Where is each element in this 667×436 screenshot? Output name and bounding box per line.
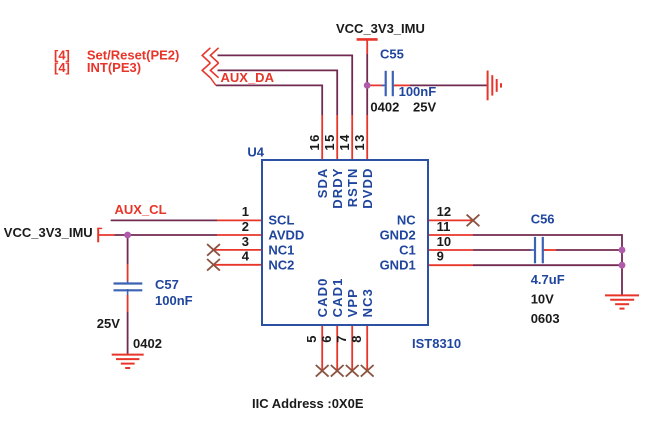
svg-text:NC1: NC1 xyxy=(268,243,294,258)
junction dot at DVDD/C55 xyxy=(364,82,371,89)
svg-text:9: 9 xyxy=(437,249,444,264)
no-ERC X pin 3 xyxy=(207,244,220,256)
C56 right red lead xyxy=(544,249,556,251)
wire VCC vertical red lead xyxy=(366,39,368,54)
no-ERC X pin 4 xyxy=(207,259,220,271)
capacitor C57 xyxy=(127,281,129,296)
IC U4 body xyxy=(262,160,428,325)
wire DVDD vertical plum xyxy=(366,54,368,115)
wire port red xyxy=(98,234,114,236)
svg-text:GND1: GND1 xyxy=(380,258,416,273)
power symbol VCC_3V3_IMU top bar xyxy=(357,38,378,41)
wire AUX_DA to SDA xyxy=(216,85,322,115)
junction dot rail C1 xyxy=(619,247,626,254)
pin 14 RSTN red lead xyxy=(351,115,353,160)
pin 6 red lead xyxy=(336,325,338,371)
junction dot rail GND1 xyxy=(619,262,626,269)
svg-text:0603: 0603 xyxy=(531,311,560,326)
svg-text:15: 15 xyxy=(322,133,337,150)
wire C55 to ground plum xyxy=(410,84,487,86)
svg-text:5: 5 xyxy=(304,335,319,342)
svg-text:1: 1 xyxy=(242,204,249,219)
svg-text:NC3: NC3 xyxy=(360,288,375,317)
ground right rail xyxy=(605,295,639,308)
C57 bottom red lead xyxy=(127,295,129,312)
svg-text:12: 12 xyxy=(437,204,451,219)
svg-text:AUX_CL: AUX_CL xyxy=(115,202,167,217)
svg-text:NC: NC xyxy=(397,212,416,227)
wire junction down to C57 plum xyxy=(127,235,129,264)
svg-text:25V: 25V xyxy=(413,99,436,114)
svg-text:CAD1: CAD1 xyxy=(330,278,345,318)
svg-text:SCL: SCL xyxy=(268,212,294,227)
capacitor C56 xyxy=(531,249,548,251)
svg-text:VCC_3V3_IMU: VCC_3V3_IMU xyxy=(336,21,425,36)
svg-text:AVDD: AVDD xyxy=(268,227,304,242)
pin 1 SCL red lead xyxy=(217,219,262,221)
C57 top red lead xyxy=(127,264,129,282)
svg-text:INT(PE3): INT(PE3) xyxy=(87,60,141,75)
svg-text:C55: C55 xyxy=(380,47,404,62)
svg-text:IIC Address :0X0E: IIC Address :0X0E xyxy=(252,396,364,411)
svg-text:RSTN: RSTN xyxy=(345,168,360,208)
pin 5 red lead xyxy=(321,325,323,371)
wire INT to DRDY xyxy=(218,70,338,115)
no-ERC X pin 8 xyxy=(361,365,374,377)
pin 16 SDA red lead xyxy=(321,115,323,160)
pin 3 NC1 red lead xyxy=(214,249,263,251)
pin 4 NC2 red lead xyxy=(214,264,263,266)
svg-text:CAD0: CAD0 xyxy=(315,278,330,318)
off-sheet connector chevron INT(PE3) xyxy=(202,63,218,85)
svg-text:DRDY: DRDY xyxy=(330,168,345,209)
svg-text:C57: C57 xyxy=(155,277,179,292)
wire port to pin2 plum xyxy=(115,234,218,236)
svg-text:VPP: VPP xyxy=(345,288,360,317)
wire GND1 to rail plum xyxy=(473,264,622,266)
ground (rotated right) at C55 xyxy=(488,71,501,101)
wire GND2 to rail xyxy=(473,235,622,295)
svg-text:25V: 25V xyxy=(97,316,120,331)
svg-text:AUX_DA: AUX_DA xyxy=(221,70,275,85)
svg-text:GND2: GND2 xyxy=(380,227,416,242)
power port VCC_3V3_IMU left bar xyxy=(97,228,99,243)
ground below C57 xyxy=(112,355,144,368)
svg-text:VCC_3V3_IMU: VCC_3V3_IMU xyxy=(4,225,93,240)
pin 10 C1 red lead xyxy=(428,249,473,251)
svg-text:10: 10 xyxy=(437,234,451,249)
svg-text:6: 6 xyxy=(319,335,334,342)
svg-text:100nF: 100nF xyxy=(399,84,437,99)
wire C55 left red xyxy=(367,84,384,86)
svg-text:4: 4 xyxy=(242,249,250,264)
svg-text:0402: 0402 xyxy=(370,99,399,114)
svg-text:3: 3 xyxy=(242,234,249,249)
pin 8 red lead xyxy=(366,325,368,371)
pin 2 AVDD red lead xyxy=(217,234,262,236)
pin 13 DVDD red lead xyxy=(366,115,368,160)
svg-text:SDA: SDA xyxy=(315,168,330,199)
svg-text:2: 2 xyxy=(242,219,249,234)
wire AUX_CL to SCL xyxy=(111,219,217,221)
svg-text:13: 13 xyxy=(352,133,367,150)
no-ERC X pin 7 xyxy=(346,365,359,377)
svg-text:C56: C56 xyxy=(531,211,555,226)
svg-text:[4]: [4] xyxy=(54,60,70,75)
svg-text:0402: 0402 xyxy=(133,336,162,351)
svg-text:DVDD: DVDD xyxy=(360,168,375,209)
svg-text:16: 16 xyxy=(307,133,322,150)
svg-text:4.7uF: 4.7uF xyxy=(531,272,565,287)
svg-text:NC2: NC2 xyxy=(268,258,294,273)
pin 11 GND2 red lead xyxy=(428,234,473,236)
pin 9 GND1 red lead xyxy=(428,264,473,266)
svg-text:8: 8 xyxy=(349,335,364,342)
svg-text:100nF: 100nF xyxy=(155,293,193,308)
no-ERC X pin 5 xyxy=(316,365,329,377)
svg-text:C1: C1 xyxy=(399,243,416,258)
svg-text:U4: U4 xyxy=(247,145,264,160)
svg-text:7: 7 xyxy=(334,335,349,342)
wire C56 to rail plum xyxy=(556,249,622,251)
svg-text:14: 14 xyxy=(337,133,352,150)
pin 15 DRDY red lead xyxy=(336,115,338,160)
svg-text:11: 11 xyxy=(437,219,451,234)
no-ERC X pin 12 xyxy=(467,215,480,227)
capacitor C55 xyxy=(382,84,398,86)
wire C55 right red lead xyxy=(394,84,410,86)
pin 12 NC red lead xyxy=(428,219,473,221)
svg-text:10V: 10V xyxy=(531,292,554,307)
wire Set/Reset to RSTN xyxy=(218,55,353,115)
no-ERC X pin 6 xyxy=(331,365,344,377)
wire C57 to ground plum xyxy=(127,312,129,355)
off-sheet connector chevron Set/Reset(PE2) xyxy=(202,48,218,63)
pin 7 red lead xyxy=(351,325,353,371)
svg-text:IST8310: IST8310 xyxy=(412,336,461,351)
wire C1 to C56 plum xyxy=(473,249,532,251)
junction dot at VCC left xyxy=(124,232,131,239)
